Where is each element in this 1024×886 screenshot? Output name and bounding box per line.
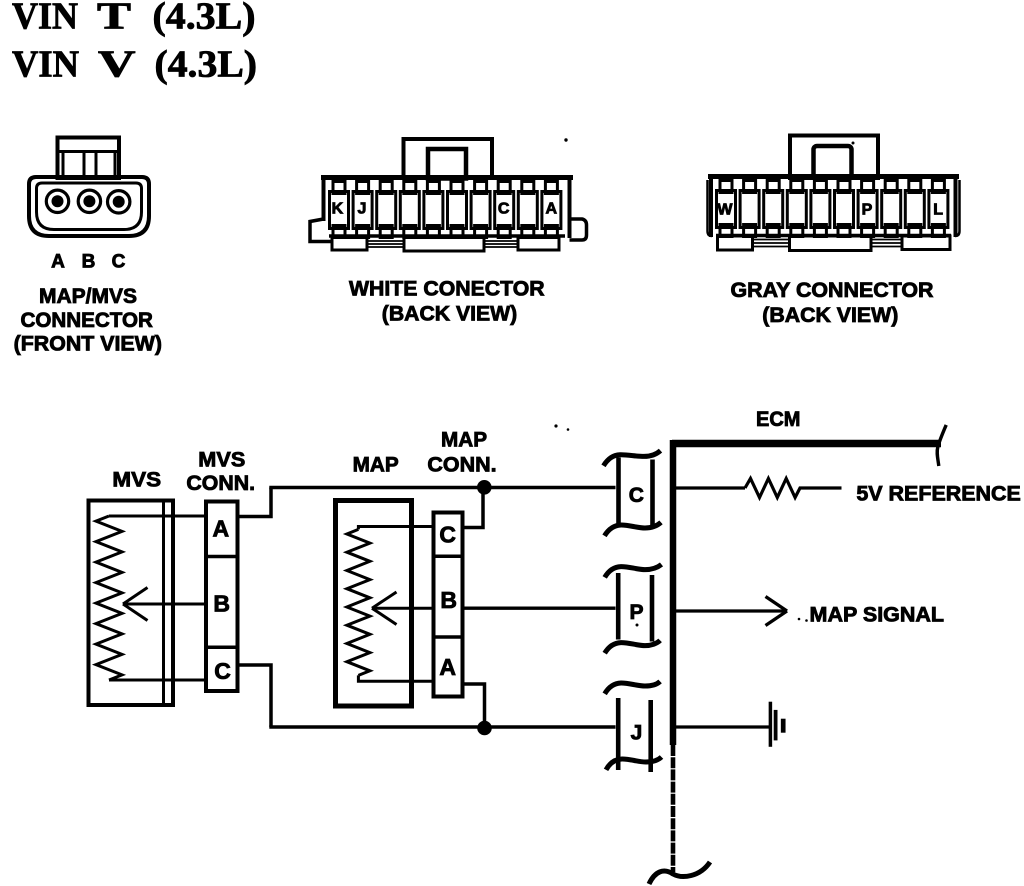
wire MVS conn C down to bottom bus <box>238 665 272 727</box>
svg-text:A: A <box>212 516 229 542</box>
gray connector back view: top tab <box>790 136 878 179</box>
svg-text:P: P <box>862 202 873 219</box>
svg-text:C: C <box>439 522 456 548</box>
svg-text:MAP: MAP <box>441 428 487 451</box>
gray connector pin cavities (10 slots) <box>717 181 948 237</box>
svg-text:P: P <box>629 601 643 624</box>
svg-text:C: C <box>214 658 231 684</box>
svg-text:5V REFERENCE: 5V REFERENCE <box>856 483 1021 506</box>
wire MAP conn B to ECM P (MAP signal) <box>463 607 616 610</box>
svg-text:VIN: VIN <box>12 44 79 86</box>
scan speck dots <box>554 138 854 626</box>
wire bus to MAP signal arrow <box>670 597 787 626</box>
svg-text:C: C <box>629 484 644 507</box>
white connector pin cavities (10 slots) <box>330 182 561 238</box>
svg-text:ECM: ECM <box>756 408 800 431</box>
svg-text:MAP: MAP <box>353 453 399 476</box>
svg-text:(4.3L): (4.3L) <box>155 44 258 86</box>
wire MAP conn A down to junction <box>463 684 485 727</box>
svg-text:A: A <box>51 252 65 273</box>
MVS wiper arrow <box>123 588 206 621</box>
white connector back view: body outline <box>310 176 587 242</box>
svg-text:(BACK VIEW): (BACK VIEW) <box>382 303 517 326</box>
MAP/MVS connector front view: body <box>29 177 149 236</box>
svg-text:L: L <box>933 202 943 219</box>
wire bus to 5V resistor <box>670 486 745 489</box>
ECM connector J <box>605 681 662 772</box>
svg-text:(BACK VIEW): (BACK VIEW) <box>762 304 898 327</box>
MVS connector block <box>206 502 238 692</box>
svg-text:B: B <box>213 591 230 617</box>
MAP/MVS connector pin A cavity <box>46 190 68 212</box>
gray connector bottom tabs <box>718 236 951 251</box>
MAP connector block <box>434 513 463 697</box>
title line VIN V (4.3L) <box>12 44 257 86</box>
wire MVS conn A to top bus <box>238 488 272 517</box>
wire top horizontal (5V feed) <box>269 486 615 490</box>
title line VIN T (4.3L) <box>12 0 256 38</box>
ECM connector P <box>605 564 662 653</box>
svg-text:J: J <box>631 722 643 745</box>
white connector back view: top tab <box>404 139 493 179</box>
svg-text:CONN.: CONN. <box>427 453 496 476</box>
wire bus to ground <box>670 725 769 728</box>
svg-text:VIN: VIN <box>12 0 78 38</box>
wire MAP conn C up to junction <box>463 488 484 528</box>
wire MAP resistor top to conn C <box>358 527 433 530</box>
MAP/MVS connector pin C cavity <box>108 191 130 213</box>
svg-text:A: A <box>439 654 456 680</box>
svg-text:GRAY CONNECTOR: GRAY CONNECTOR <box>731 279 934 302</box>
svg-text:C: C <box>498 201 510 218</box>
svg-text:C: C <box>112 252 126 273</box>
wire bottom horizontal (ground feed) <box>269 725 615 729</box>
svg-text:B: B <box>440 587 457 613</box>
MAP sensor box <box>336 501 412 707</box>
MAP wiper arrow <box>372 592 434 625</box>
resistor 5V reference <box>745 479 804 498</box>
wire MAP resistor bottom to conn A <box>358 675 433 681</box>
svg-text:MVS: MVS <box>112 469 161 492</box>
ground symbol <box>770 702 783 747</box>
svg-text:MAP SIGNAL: MAP SIGNAL <box>810 604 945 627</box>
svg-text:(FRONT VIEW): (FRONT VIEW) <box>14 333 162 356</box>
junction dot top <box>477 480 492 495</box>
svg-text:T: T <box>97 0 131 38</box>
MVS resistor zigzag <box>96 516 122 680</box>
svg-text:K: K <box>332 201 344 218</box>
white connector bottom tabs <box>332 238 559 252</box>
svg-text:CONNECTOR: CONNECTOR <box>20 309 153 332</box>
svg-text:W: W <box>717 202 733 219</box>
svg-text:CONN.: CONN. <box>186 472 255 495</box>
gray connector back view: body outline <box>708 175 960 238</box>
MAP/MVS connector pin B cavity <box>78 190 100 212</box>
svg-text:MAP/MVS: MAP/MVS <box>39 285 137 308</box>
wire MVS resistor bottom to conn C <box>109 679 206 682</box>
ECM connector C <box>604 451 662 536</box>
ECM top boundary line <box>672 440 941 448</box>
wire resistor to label <box>804 486 842 489</box>
svg-text:(4.3L): (4.3L) <box>153 0 256 38</box>
svg-text:MVS: MVS <box>198 449 245 472</box>
svg-text:J: J <box>358 201 367 218</box>
junction dot bottom <box>477 721 492 736</box>
MAP resistor zigzag <box>347 529 370 675</box>
MAP/MVS connector front view: latch tab <box>58 138 120 179</box>
svg-text:V: V <box>98 44 136 86</box>
wire MVS resistor top to conn A <box>109 515 206 518</box>
svg-text:A: A <box>546 201 558 218</box>
svg-text:WHITE CONECTOR: WHITE CONECTOR <box>349 278 545 301</box>
svg-text:B: B <box>82 252 96 273</box>
MVS sensor box <box>89 501 174 706</box>
ECM top line break mark <box>937 425 946 466</box>
ECM vertical bus <box>670 440 677 745</box>
ECM bus bottom break squiggle <box>649 862 710 884</box>
